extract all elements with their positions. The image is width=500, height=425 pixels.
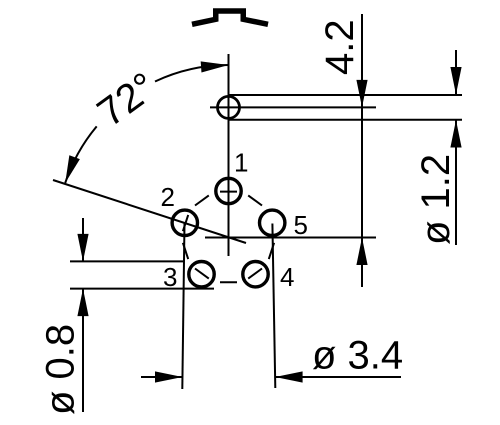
bolt circle dash between holes 1-2 xyxy=(195,195,209,205)
dim 0.8 line upper xyxy=(82,218,84,261)
bolt circle dash at hole 3 xyxy=(195,269,209,279)
bolt circle dash between holes 3-4 xyxy=(220,281,237,283)
svg-text:ø 0.8: ø 0.8 xyxy=(39,324,83,415)
dim 4.2 arrow up xyxy=(356,238,367,266)
dim 3.4 left extension xyxy=(182,223,184,389)
svg-text:3: 3 xyxy=(163,262,177,292)
horizontal centerline xyxy=(205,237,376,239)
dim 0.8 lower tangent xyxy=(70,288,214,290)
bolt circle dash between holes 5-1 xyxy=(248,195,262,205)
72 degree arc lower segment xyxy=(65,126,97,183)
hole 2 xyxy=(172,210,197,235)
dim 3.4 left leader xyxy=(141,376,183,378)
dim 1.2 arrow down xyxy=(450,67,461,95)
bolt circle dash between holes 2-3 xyxy=(183,243,188,259)
dim 0.8 arrow down xyxy=(77,234,88,262)
hole 4 xyxy=(243,262,268,287)
dim 3.4 right arrow xyxy=(275,371,303,382)
upper tangent line xyxy=(229,94,462,96)
arc arrow right xyxy=(201,59,229,72)
shield hole circle xyxy=(218,96,240,118)
hole 5 xyxy=(260,210,285,235)
dim 4.2 arrow down xyxy=(356,80,367,108)
dim 1.2 arrow up xyxy=(450,120,461,148)
svg-text:ø 3.4: ø 3.4 xyxy=(312,334,403,378)
svg-text:1: 1 xyxy=(234,148,248,178)
dim 3.4 right leader xyxy=(275,376,401,378)
dim 3.4 left arrow xyxy=(155,371,183,382)
dim 0.8 line lower xyxy=(82,289,84,412)
top hole centerline xyxy=(210,106,376,108)
dim 0.8 upper tangent xyxy=(70,260,183,262)
svg-text:4.2: 4.2 xyxy=(318,19,362,75)
svg-text:72°: 72° xyxy=(90,64,165,135)
dim 0.8 arrow up xyxy=(77,289,88,317)
svg-text:2: 2 xyxy=(161,182,175,212)
bolt circle dash between holes 4-5 xyxy=(269,243,274,259)
svg-text:5: 5 xyxy=(294,210,308,240)
dim 4.2 line xyxy=(361,14,363,287)
72 degree arc upper segment xyxy=(155,65,229,82)
keyway symbol xyxy=(192,11,268,24)
bolt circle dash at hole 2 xyxy=(183,215,188,231)
dim 3.4 right extension xyxy=(272,224,275,389)
dim 1.2 line upper xyxy=(455,50,457,95)
bolt circle dash at hole 1 xyxy=(220,191,237,193)
svg-text:4: 4 xyxy=(280,262,294,292)
hole 1 xyxy=(216,178,241,203)
ray at 72 degrees xyxy=(53,180,246,243)
svg-text:ø 1.2: ø 1.2 xyxy=(414,154,458,245)
vertical centerline xyxy=(228,54,230,256)
dim 1.2 line lower xyxy=(455,120,457,245)
bolt circle dash at hole 4 xyxy=(248,269,262,279)
hole 3 xyxy=(189,262,214,287)
arc arrow left xyxy=(60,155,80,185)
lower tangent line xyxy=(229,119,462,121)
